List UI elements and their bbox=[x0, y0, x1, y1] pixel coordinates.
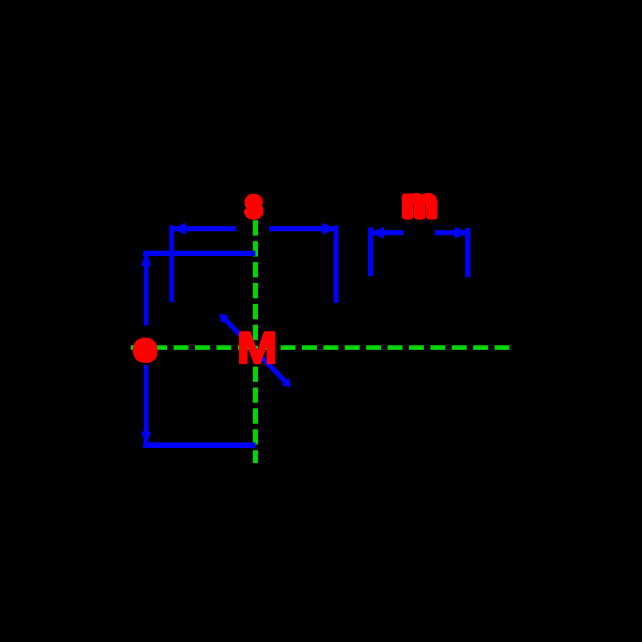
e-dimension top extension line bbox=[143, 251, 255, 256]
diagonal double arrow through M bbox=[223, 317, 288, 384]
m-dimension left arrowhead bbox=[371, 227, 384, 239]
diagonal lower-right arrowhead bbox=[282, 378, 291, 387]
e-dimension bottom extension line bbox=[143, 442, 255, 448]
svg-text:m: m bbox=[402, 183, 437, 226]
s-dimension line right segment bbox=[269, 226, 336, 231]
m-dimension line right segment bbox=[435, 230, 468, 235]
e-dimension vertical line upper segment bbox=[144, 255, 149, 326]
svg-text:M: M bbox=[237, 323, 277, 373]
green dashed vertical axis through M bbox=[253, 220, 258, 463]
s-dimension line left segment bbox=[172, 226, 236, 231]
s-dimension right extension bar bbox=[334, 226, 339, 304]
s-dimension right arrowhead bbox=[322, 223, 336, 235]
e-dimension bottom arrowhead bbox=[141, 432, 151, 446]
svg-text:s: s bbox=[245, 184, 262, 225]
s-dimension left extension bar bbox=[169, 226, 174, 303]
green dashed horizontal axis through M bbox=[131, 345, 511, 350]
s-dimension left arrowhead bbox=[172, 223, 186, 235]
m-dimension line left segment bbox=[371, 230, 404, 235]
e-dimension top arrowhead bbox=[141, 252, 151, 266]
m-dimension right bar bbox=[465, 228, 470, 277]
label e bbox=[135, 328, 156, 368]
diagonal upper-left arrowhead bbox=[219, 314, 228, 323]
label M bbox=[237, 323, 277, 373]
label m bbox=[402, 183, 437, 226]
m-dimension right arrowhead bbox=[455, 227, 468, 239]
e-dimension vertical line lower segment bbox=[144, 365, 149, 443]
label s bbox=[245, 184, 262, 225]
svg-text:e: e bbox=[135, 328, 156, 368]
m-dimension left bar bbox=[368, 228, 373, 277]
